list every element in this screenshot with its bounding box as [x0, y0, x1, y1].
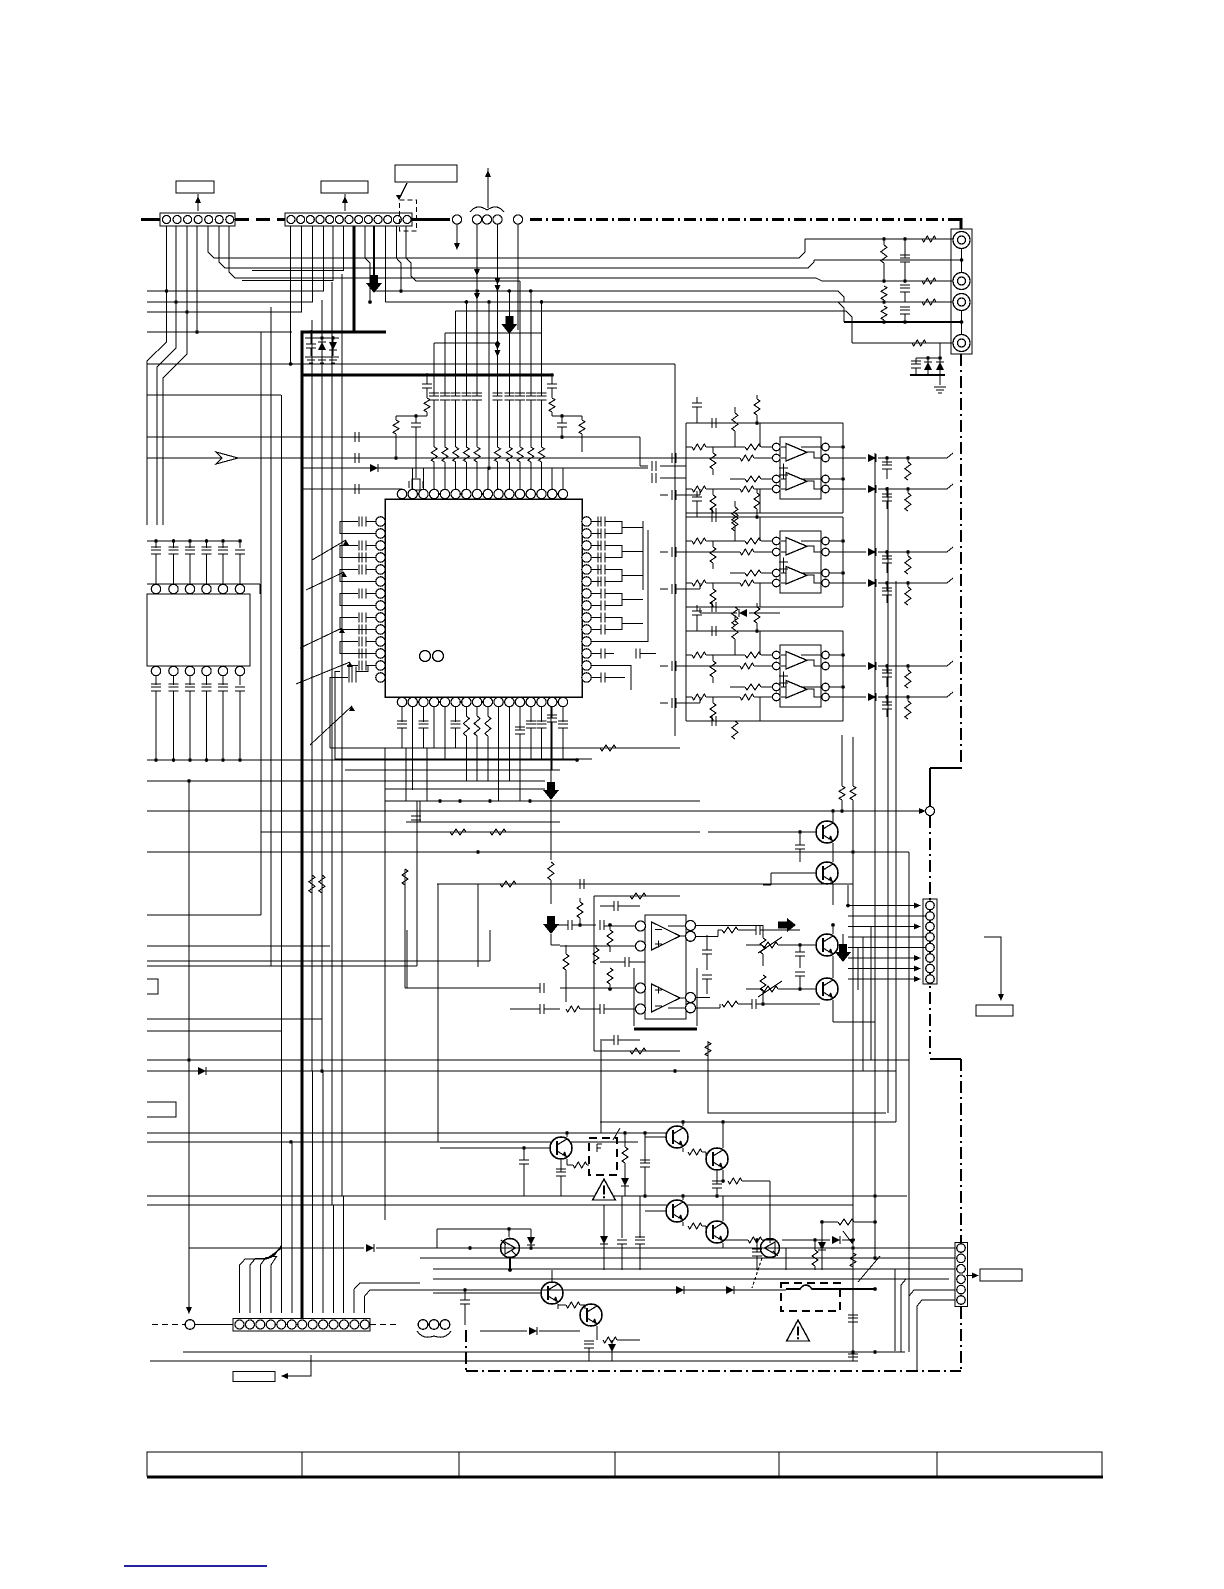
pin CN102-10	[374, 216, 382, 224]
wire CN101 p1 to margin	[147, 226, 167, 525]
wire corner x407	[407, 930, 480, 988]
wire right pin loop	[614, 546, 622, 558]
pin CN102-2	[297, 216, 305, 224]
cap IC202 fb2	[712, 602, 716, 612]
op-amp IC301A triangle	[652, 922, 681, 950]
wire S2 into CN401	[260, 1246, 281, 1313]
fat arrow y925	[543, 916, 559, 934]
wire to CN3 pin4	[848, 936, 925, 938]
wire rail y364	[147, 363, 675, 365]
cap x465	[460, 1300, 470, 1304]
zener Z2	[936, 362, 944, 370]
resistor IC301 b	[607, 930, 613, 946]
wire rail y1361	[150, 1360, 853, 1362]
op-amp IC301B triangle	[652, 984, 681, 1012]
zener cluster below CN video	[916, 357, 941, 359]
resistor IC202 in3	[745, 570, 761, 576]
wire cap feed2	[660, 477, 686, 479]
pin CN102-7	[345, 216, 353, 224]
pin CN402-4	[957, 1275, 966, 1284]
wire right pin11 up	[592, 530, 649, 642]
wire CN102 p10 drop	[384, 226, 386, 302]
wire rail y961	[147, 960, 490, 962]
wire left pin loop	[340, 546, 376, 558]
wire rail y268	[219, 226, 814, 268]
wire base Q202	[771, 872, 816, 874]
cap IC301 in1b	[600, 920, 604, 930]
cap shunt c	[900, 307, 910, 314]
wire thick bus left	[141, 218, 160, 221]
table revision block	[147, 1452, 1102, 1476]
resistor Q403 em	[728, 1178, 742, 1184]
jack inner y240	[958, 236, 966, 244]
resistor IC203 fbv	[732, 621, 738, 639]
op-amp IC202B fb tap	[801, 572, 821, 574]
wire vertical x909	[908, 852, 910, 1352]
wire thick drop x354	[353, 226, 356, 332]
wire rail y1142	[147, 1141, 638, 1143]
pin CN402-2	[957, 1254, 966, 1263]
wire right pin loop	[614, 522, 622, 534]
wire bus vertical x261	[260, 332, 262, 915]
wire dash between connectors	[235, 218, 285, 221]
var arrow Q302	[758, 981, 782, 997]
wire IC202 out1	[829, 551, 866, 553]
leader CN401 label	[285, 1355, 311, 1376]
warning triangle 1	[593, 1179, 616, 1200]
resistor x842	[839, 786, 845, 800]
wire rail y852	[147, 851, 909, 853]
pin CN401-8	[308, 1320, 317, 1329]
wire rail y1133	[147, 1132, 666, 1134]
cap shunt a	[900, 255, 910, 262]
wire rail y395	[147, 394, 281, 396]
transistor Q202	[816, 862, 838, 884]
wire Q201 collector	[832, 811, 834, 822]
resistor IC201 in3	[745, 476, 761, 482]
cap IC201 out1	[882, 462, 892, 469]
resistor IC201 shunt2	[710, 495, 716, 511]
wire rail y302	[836, 301, 953, 303]
right pin capacitors	[598, 517, 605, 527]
pin CN3-6	[926, 954, 935, 963]
wire bus vertical x271	[270, 307, 272, 966]
op-amp IC201A triangle	[786, 444, 807, 462]
IC U601 left pins	[376, 517, 385, 526]
wire left pin loop	[340, 618, 376, 630]
wire rail y1290b	[734, 1289, 786, 1291]
zener x625	[621, 1178, 629, 1186]
pin CN401-11	[340, 1320, 349, 1329]
cap IC202 out2	[882, 588, 892, 595]
op-amp IC201B triangle	[786, 473, 807, 491]
node circle r2	[429, 1320, 439, 1330]
resistor IC203 in4	[740, 694, 754, 700]
wire drop x312	[311, 1071, 313, 1313]
pin CN102-6	[335, 216, 343, 224]
wire base Q401	[440, 1147, 550, 1149]
diode y1290a	[676, 1286, 684, 1294]
pin CN3-8	[926, 975, 935, 984]
wire left pin loop	[340, 594, 376, 606]
wire rail y966	[147, 965, 417, 967]
wire IC202 fb top	[686, 516, 843, 518]
wire right pin loop	[614, 618, 622, 630]
wire IC201 fb bot	[686, 512, 843, 514]
resistor Q404-Q405	[688, 1223, 702, 1229]
cap right pin12	[636, 649, 640, 659]
pin CN401-5	[277, 1320, 286, 1329]
wire IC301A out	[680, 935, 685, 937]
wire rail y239	[805, 238, 953, 240]
pin CN3-1	[926, 901, 935, 910]
pin CN401-4	[266, 1320, 275, 1329]
wire IC301 loop left	[593, 896, 595, 1051]
wire Q301 collector	[832, 925, 834, 934]
diode IC201 out1	[868, 454, 876, 462]
zener Q409	[608, 1344, 616, 1352]
wire rail y343	[852, 342, 953, 344]
wire bus vertical x312	[311, 320, 313, 1071]
wire stub y291 left	[147, 290, 167, 292]
wire right collector x643	[642, 521, 644, 590]
wire Q407 emitter	[780, 1248, 786, 1270]
pin CN102-3	[306, 216, 314, 224]
resistor IC202 fbv	[732, 507, 738, 525]
wire drop node1	[456, 224, 458, 248]
leader CN3 label	[984, 937, 1001, 998]
wire thick y375 gnd	[910, 374, 945, 376]
wire drop node2	[476, 224, 478, 298]
resistor IC201 in4	[740, 486, 754, 492]
wire thick drop CN102 pin9	[373, 226, 375, 275]
wire CN102 p11 jog	[396, 226, 401, 291]
leader arrows to left caps	[312, 540, 346, 560]
wire IC202 out2	[829, 582, 866, 584]
transistor Q408	[541, 1282, 563, 1304]
resistor IC203 fbv2	[732, 721, 738, 739]
warning triangle 2	[787, 1320, 810, 1341]
wire CN402 pin6	[917, 1300, 955, 1371]
op-amp IC203B fb tap	[801, 686, 821, 688]
wire 45 jog out	[947, 578, 953, 583]
resistor IC203 in1	[745, 652, 761, 658]
wire thick IC301	[634, 1028, 697, 1031]
cap feed1	[652, 461, 656, 471]
IC301 output pins	[686, 921, 696, 931]
transistor Q404	[666, 1200, 688, 1222]
table divider x459	[458, 1452, 460, 1476]
wire vertical x875	[874, 453, 876, 1258]
cap gain	[625, 957, 629, 967]
cap RC-right	[557, 423, 567, 427]
pin CN101-3	[184, 216, 192, 224]
resistor IC203 src2	[692, 694, 706, 700]
wire base Q201	[708, 831, 816, 833]
cap Q302	[795, 972, 805, 976]
dash-dot border right upper	[960, 354, 962, 766]
wire CN102 p8 jog	[365, 226, 370, 302]
pin CN101-5	[205, 216, 213, 224]
op-amp IC201 output pins	[822, 443, 830, 451]
op-amp IC202A triangle	[786, 538, 807, 556]
wire IC301 out2	[696, 1007, 720, 1009]
wire rail y1060	[147, 1059, 909, 1061]
resistor shunt c	[881, 306, 887, 320]
wire rail y801	[385, 800, 700, 802]
op-amp IC202 box	[780, 531, 821, 593]
resistor IC202 src1	[692, 538, 706, 544]
transistor Q405	[706, 1221, 728, 1243]
cap y988	[540, 983, 544, 993]
cap Q401b	[556, 1169, 566, 1176]
zener x822	[818, 1242, 826, 1250]
wire rail above IC602	[147, 583, 260, 585]
wire opamp bus x675	[674, 364, 676, 736]
op-amp IC203A out step	[807, 660, 821, 666]
transistor Q201	[816, 821, 838, 843]
pin CN101-2	[173, 216, 181, 224]
wire jack link2	[961, 310, 963, 335]
jack inner y343	[958, 339, 966, 347]
wire rail y343	[434, 342, 497, 344]
ground g1	[305, 357, 317, 363]
wire rail y541	[147, 540, 240, 542]
op-amp IC201 box	[780, 437, 821, 499]
fat arrow y790	[543, 782, 559, 800]
wire rail y258	[208, 226, 805, 258]
resistor IC201 in2	[740, 455, 754, 461]
wire left pin loop	[340, 642, 376, 654]
cap IC201 fb	[712, 418, 716, 428]
pin CN401-6	[287, 1320, 296, 1329]
wire IC203 out2	[829, 696, 866, 698]
cap IC203 fb	[712, 626, 716, 636]
diode left y1248	[366, 1244, 374, 1252]
resistor IC201 top	[754, 399, 760, 415]
resistor IC201 in1	[745, 444, 761, 450]
resistor IC201 load2	[905, 493, 911, 511]
wire rail y1196	[147, 1195, 907, 1197]
wire CN101 p4	[196, 226, 198, 332]
wire stub y312 left	[147, 311, 187, 313]
cap mid1	[702, 950, 712, 954]
wire up from brace	[487, 168, 489, 208]
pin CN401-12	[350, 1320, 359, 1329]
diode IC201 out2	[868, 485, 876, 493]
resistor x405	[402, 869, 408, 885]
wire base Q404	[645, 1210, 666, 1212]
wire left pin loop	[340, 522, 376, 534]
wire dash to node circle	[152, 1324, 185, 1326]
resistor IC202 shunt1	[710, 547, 716, 563]
wire Q405 coll	[722, 1196, 724, 1221]
left pin capacitors	[359, 517, 366, 527]
jack outer y302	[953, 294, 970, 311]
wire CN102 p6 left	[252, 226, 344, 271]
wire right pin loop	[614, 570, 622, 582]
resistor IC202 top	[754, 493, 760, 509]
jack inner y302	[958, 298, 966, 306]
wire to Q407 base	[769, 1181, 771, 1237]
wire Q404 coll	[682, 1196, 684, 1200]
zener x531	[527, 1237, 535, 1245]
diode y1290b	[726, 1286, 734, 1294]
wire rail y946	[147, 945, 330, 947]
wire feed CN3-3	[870, 927, 872, 1061]
resistor shunt a	[881, 245, 887, 263]
node circles on top bus	[452, 215, 461, 224]
wire rail y437	[147, 436, 640, 438]
resistor IC301 in3	[566, 1006, 580, 1012]
plus sign A	[779, 464, 788, 473]
IC index circle 1	[420, 651, 431, 662]
node circle on border	[926, 807, 935, 816]
resistor IC203 load2	[905, 701, 911, 719]
wire box x708-y1113	[708, 1041, 886, 1113]
wire left pin loop	[340, 570, 376, 582]
wire rail y832	[261, 831, 700, 833]
resistor base Q301	[762, 942, 778, 948]
dash-dot border bottom-left vert	[465, 1330, 467, 1371]
connector CN101 body	[160, 213, 235, 226]
transistor Q406 (opto)	[501, 1239, 520, 1258]
wire S0 into CN401	[240, 1248, 282, 1313]
pin CN101-6	[215, 216, 223, 224]
cap shunt b	[900, 285, 910, 292]
resistor IC202 src2	[692, 580, 706, 586]
cap IC202 fb	[712, 512, 716, 522]
cap x853b	[848, 1354, 858, 1361]
leader arrows Q407	[843, 1231, 852, 1243]
cap loop1	[614, 901, 618, 911]
cap Q409	[584, 1341, 594, 1348]
wire IC203 fb bot	[686, 720, 843, 722]
wire Q401 coll	[566, 1133, 568, 1137]
wire rail y1019	[147, 1018, 322, 1020]
dash-dot border below CN402	[960, 1307, 962, 1372]
resistor IC201 load1	[905, 462, 911, 480]
pin CN102-5	[326, 216, 334, 224]
dashed box around CN102 pin13	[400, 200, 417, 231]
wire drop x343	[343, 1196, 345, 1313]
transistor Q301	[816, 934, 838, 956]
diode between blocks	[739, 609, 747, 617]
dash-dot top border	[530, 218, 950, 221]
label box CN402	[980, 1269, 1022, 1281]
IC top pin stubs	[401, 488, 403, 490]
table divider x779	[778, 1452, 780, 1476]
resistor x551	[548, 862, 554, 880]
wire drop node4	[517, 224, 519, 330]
fuse F601	[786, 1285, 838, 1289]
diode IC202 out1	[868, 548, 876, 556]
wire rail y770	[345, 769, 560, 771]
brace under node circles	[417, 1331, 451, 1337]
resistor IC202 in1	[745, 538, 761, 544]
wire rail y489	[302, 488, 402, 490]
wire rail y468	[302, 467, 648, 469]
diode Q409 base	[529, 1327, 537, 1335]
cap IC202 in2	[672, 547, 676, 557]
wire x189 long	[188, 781, 190, 1311]
wire vertical x853	[852, 800, 854, 1361]
wire S3 into CN401	[271, 1246, 281, 1314]
wire S1 into CN401	[250, 1247, 281, 1313]
wire node to CN401	[195, 1324, 233, 1326]
label box shield wire	[395, 165, 457, 182]
wire drop x281	[280, 395, 282, 1313]
wire vertical x489	[488, 302, 490, 468]
wire 45 jog out	[947, 661, 953, 666]
pin CN3-4	[926, 933, 935, 942]
dash-dot border right lower	[960, 1059, 962, 1242]
wire IC201 fb vertical	[842, 423, 844, 513]
wire CN102 p12 jog	[406, 226, 520, 281]
resistor y302	[922, 299, 936, 305]
wire CN402 pin5	[909, 1290, 955, 1296]
pin CN402-5	[957, 1285, 966, 1294]
label box CN102 name	[321, 181, 368, 193]
cap x640	[635, 1237, 645, 1244]
connector CN102 body	[285, 213, 412, 226]
resistor Q408-Q409	[566, 1302, 580, 1308]
cap feed2	[652, 473, 656, 483]
pin CN401-2	[245, 1320, 254, 1329]
label F in dashed box	[597, 1144, 602, 1152]
cap IC301 in3b	[600, 1004, 604, 1014]
ground g2	[316, 357, 328, 363]
footer blue underline	[124, 1565, 267, 1567]
resistor y748	[600, 745, 616, 751]
pin CN401-1	[235, 1320, 244, 1329]
table divider x937	[936, 1452, 938, 1476]
op-amp IC202B out step	[807, 575, 821, 583]
op-amp IC203B triangle	[786, 681, 807, 699]
cap x622	[617, 1240, 627, 1244]
plus IC301B	[655, 987, 662, 994]
resistor x853t	[850, 786, 856, 800]
wire 45 jog out	[947, 453, 953, 458]
resistor RC-right	[579, 420, 585, 434]
cap IC201 in2	[672, 453, 676, 463]
wire rail y1071	[147, 1070, 896, 1072]
diode IC203 out2	[868, 693, 876, 701]
label box CN401	[233, 1372, 275, 1382]
wire 45 jog out	[947, 547, 953, 552]
wire rail y1279	[433, 1278, 949, 1280]
wire y988	[405, 987, 540, 989]
side column x427	[426, 375, 428, 384]
wire rail y322 thick	[844, 321, 961, 323]
resistor IC203 load1	[905, 670, 911, 688]
op-amp IC203 output pins	[822, 651, 830, 659]
cap on rail y437	[355, 432, 359, 442]
wire to CN3 pin5	[848, 947, 925, 949]
wire y1248 left	[189, 1247, 364, 1249]
wire drop x364b	[364, 1296, 366, 1313]
pin CN402-6	[957, 1296, 966, 1305]
wire rail y1205	[147, 1204, 853, 1206]
IC602 bottom caps	[155, 676, 157, 685]
cap out1	[756, 925, 760, 935]
wire rail y781	[147, 780, 545, 782]
wire 45 jog out	[947, 692, 953, 697]
connector CN402 body	[955, 1243, 968, 1307]
wire Q403 coll	[722, 1122, 724, 1148]
resistor IC203 src1	[692, 652, 706, 658]
IC U601 top pins	[397, 489, 406, 498]
